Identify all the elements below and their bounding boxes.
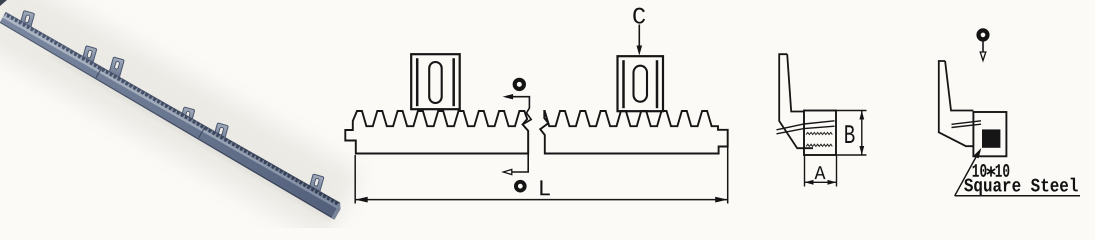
xsec1: rack block cross-section xyxy=(804,111,836,156)
xsec1: bracket arm inner edge xyxy=(787,54,804,111)
B dimension line xyxy=(861,111,863,156)
B dimension extension lines xyxy=(836,110,867,112)
xsec2: pointer ring xyxy=(979,30,988,39)
xsec2: bracket arm inner edge xyxy=(945,61,973,111)
star glyph of 10*10 xyxy=(987,167,994,176)
photo: mounting bracket tab 2 xyxy=(81,46,97,67)
xsec1: tooth hatch row 3 xyxy=(806,144,832,146)
svg-text:B: B xyxy=(844,122,856,152)
xsec2: pointer arrow down xyxy=(982,42,984,54)
pointer ring top xyxy=(515,80,524,89)
photo: mounting bracket tab 4 xyxy=(179,107,195,128)
xsec1: tooth hatch row 2 xyxy=(806,132,832,134)
L dimension extension line right xyxy=(727,130,729,204)
photo: mounting bracket tab 6 xyxy=(308,174,324,195)
svg-text:L: L xyxy=(538,176,552,202)
leader shelf line xyxy=(955,195,1080,197)
xsec1: welded tongue strip xyxy=(777,121,835,130)
photo: mounting bracket tab 3 xyxy=(108,57,124,78)
xsec2: 10x10 square steel (filled) xyxy=(982,129,1000,147)
arrow from C down to bracket xyxy=(638,25,640,49)
photo: segment seam 2 xyxy=(199,127,205,138)
photo: dark corner artifact top-left xyxy=(0,0,7,6)
xsec2: welded tongue strip xyxy=(952,121,982,125)
photo: soft shadow under bar xyxy=(47,52,334,221)
rack segment 1 outline xyxy=(345,111,528,154)
leader line to square steel xyxy=(955,153,979,196)
joint callout line with break (top arrow to bottom arrow) xyxy=(507,97,531,172)
rack segment 2 outline xyxy=(540,111,728,154)
svg-text:A: A xyxy=(814,163,825,185)
bottom arrowhead (open) xyxy=(503,169,512,174)
L dimension extension line left xyxy=(354,155,356,204)
photo: teeth row xyxy=(4,12,341,206)
xsec2: rack block cross-section xyxy=(973,112,1006,156)
photo: segment seam 1 xyxy=(96,68,102,78)
photo: end cap far xyxy=(331,203,343,220)
photo: gear rack product image xyxy=(0,0,363,240)
mounting bracket on segment 2 xyxy=(618,56,664,111)
photo: mounting bracket tab 1 xyxy=(19,11,35,32)
svg-text:Square Steel: Square Steel xyxy=(964,175,1079,197)
pointer ring bottom xyxy=(516,182,525,191)
A dimension line xyxy=(805,181,837,183)
xsec1: bracket profile outer xyxy=(779,54,813,148)
photo: rail light band xyxy=(2,15,338,208)
mounting bracket on segment 1 xyxy=(411,54,460,109)
photo: rail bottom edge xyxy=(0,22,335,218)
top arrowhead xyxy=(503,94,513,99)
photo: rail side face xyxy=(0,18,337,217)
L dimension line xyxy=(355,199,728,201)
photo: mounting bracket tab 5 xyxy=(213,123,229,144)
xsec2: bracket profile outer xyxy=(939,61,974,146)
A dimension extension lines xyxy=(804,156,806,187)
photo: soft gray halo around bar xyxy=(0,0,363,240)
